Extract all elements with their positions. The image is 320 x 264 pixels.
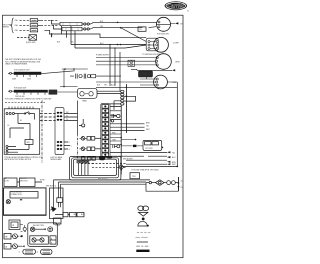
board input terminals <box>6 113 24 115</box>
thermostat screw terminal R <box>80 137 101 141</box>
unit cabinet box <box>4 188 64 219</box>
svg-text:DFT SPK: DFT SPK <box>146 148 154 150</box>
main vertical bus V1 <box>96 84 177 133</box>
low voltage terminal strip LVTB <box>55 108 64 155</box>
Carrier logo <box>165 1 190 12</box>
mid vertical feeder <box>77 101 79 160</box>
svg-text:LEADS ON TRANSFORMER.: LEADS ON TRANSFORMER. <box>5 63 28 66</box>
svg-text:UNITS WITH TWO SPEED MOTOR: UNITS WITH TWO SPEED MOTOR <box>4 159 32 161</box>
arrowed leads to accessories 4 <box>126 163 176 166</box>
svg-text:WHT: WHT <box>146 129 150 131</box>
legend line: field control wiring <box>137 232 150 234</box>
transformer secondary bar <box>8 88 78 99</box>
capacitor symbol mid board <box>110 114 120 122</box>
svg-text:YEL: YEL <box>100 26 103 28</box>
compressor terminal box <box>146 38 158 51</box>
arrowed leads to accessories 2 <box>110 156 176 159</box>
svg-text:COMP: COMP <box>173 43 180 45</box>
indoor fan motor IFM <box>96 75 177 89</box>
svg-text:CAP: CAP <box>141 72 147 76</box>
TB bottom plug blob <box>99 156 105 160</box>
svg-text:FOR 208/230V UNIT: FOR 208/230V UNIT <box>14 70 30 72</box>
wires dropping through cabinet <box>54 189 63 208</box>
svg-text:FOR 230V-1PH: FOR 230V-1PH <box>157 33 170 35</box>
wires TB right to defrost <box>110 122 150 131</box>
board relay contact <box>24 112 34 115</box>
wire from tran to bus <box>97 91 121 93</box>
border frame <box>3 15 184 258</box>
thermostat spade terminals row <box>81 157 95 164</box>
plug connector on OFM feed <box>128 60 135 66</box>
main vertical bus V2 <box>120 105 122 174</box>
svg-text:Y1: Y1 <box>66 115 68 117</box>
brace for field wiring <box>11 18 14 33</box>
crankcase heater plug circles <box>167 181 179 185</box>
svg-text:DOOR: DOOR <box>4 180 10 182</box>
branch wires to fan motors <box>71 44 146 49</box>
legend symbol: splice <box>139 212 148 216</box>
terminal circles after blocks row2 <box>82 28 90 30</box>
svg-text:WHT: WHT <box>172 164 176 166</box>
note: center labels <box>98 178 108 180</box>
terminal circles after blocks row1 <box>82 23 90 25</box>
vertical feeders mid top <box>97 45 120 92</box>
mid capacitor symbol <box>113 145 120 148</box>
legend plug receptacle row <box>30 236 56 245</box>
indoor section label box <box>17 178 46 187</box>
outdoor fan motor OFM <box>156 54 180 70</box>
svg-text:(FOR 3 PH ONLY): (FOR 3 PH ONLY) <box>145 170 159 172</box>
small sensor by TB legend box <box>20 225 26 232</box>
legend line: factory low volt <box>137 241 148 243</box>
note: warning text line <box>5 97 52 109</box>
svg-text:W2: W2 <box>66 112 69 114</box>
arrowed leads to accessories 1 <box>110 151 175 154</box>
thermostat sub-base nested boxes <box>69 156 121 180</box>
disconnect fuse row L1 (dashed field wiring) <box>15 19 58 23</box>
note above raceway <box>46 185 56 187</box>
compressor motor COMP <box>154 37 180 52</box>
vertical feeders from blocks <box>62 26 76 48</box>
svg-text:TRAN: TRAN <box>82 100 87 103</box>
wires from disconnect to terminal blocks <box>51 20 63 29</box>
heavy right bus stub <box>178 177 183 191</box>
svg-text:TO ROOM TSTAT: TO ROOM TSTAT <box>131 169 145 172</box>
svg-text:WIRING: WIRING <box>3 27 10 29</box>
junction loop near bus <box>124 95 136 101</box>
svg-text:YEL: YEL <box>71 42 74 44</box>
svg-text:CONNECTION: CONNECTION <box>10 194 22 196</box>
24v terminal board TB <box>101 104 110 158</box>
outdoor thermostat sensor diamond <box>156 180 167 186</box>
board relay coil <box>25 132 33 150</box>
cabinet inner label plate <box>10 191 38 198</box>
TB mid wires to bus <box>110 132 122 145</box>
sensor on bus <box>119 165 123 171</box>
outdoor thermostat chain: terminal <box>146 181 156 183</box>
board internal wires <box>7 114 35 139</box>
equipment ground lug (dashed) <box>17 35 37 44</box>
accessory relay box mid <box>130 173 140 179</box>
svg-text:SEE NOTE 3: SEE NOTE 3 <box>46 185 56 187</box>
sensor circle mid <box>79 119 85 127</box>
wire L1 to compressor contactor <box>0 0 1 1</box>
dashed wires board to LVTB <box>40 114 56 121</box>
outdoor section label box <box>4 178 17 187</box>
defrost control board <box>143 140 163 150</box>
legend symbol: wire nut <box>138 206 149 211</box>
svg-text:POWER SUPPLY: POWER SUPPLY <box>96 54 110 56</box>
dashed runs to sensor <box>92 164 126 168</box>
disconnect fuse row L2 <box>15 24 58 28</box>
plug ovals bottom row <box>19 249 53 254</box>
connector pin pairs on bus <box>110 90 124 110</box>
note: three phase only <box>145 170 159 172</box>
outdoor fan motor terminals <box>96 56 158 66</box>
thermostat block pins <box>77 160 89 163</box>
note: board caption <box>4 156 43 161</box>
svg-text:TERM BOARD: TERM BOARD <box>50 158 62 161</box>
legend symbol: junction dot <box>142 218 145 221</box>
svg-text:SEE NOTE 2: SEE NOTE 2 <box>98 178 108 180</box>
right vertical feeder <box>176 82 178 166</box>
svg-text:YEL: YEL <box>172 152 175 154</box>
svg-text:PLUG: PLUG <box>56 225 61 227</box>
indoor section legend box <box>28 223 58 247</box>
wires TB to bus <box>110 106 121 119</box>
legend relay symbol row 2 <box>4 243 25 249</box>
note: field power wiring text <box>3 24 13 28</box>
legend line: factory line volt <box>136 250 149 252</box>
thermostat pin drop wires <box>79 163 88 175</box>
long interconnect wires bottom center <box>54 180 151 189</box>
wire top run to right side <box>89 22 156 24</box>
svg-text:21: 21 <box>181 181 183 183</box>
note: room tstat text <box>123 159 145 172</box>
terminal block TB1 <box>60 22 82 25</box>
note: to power supply text <box>96 54 160 56</box>
svg-text:Y2: Y2 <box>66 119 68 121</box>
svg-text:YEL: YEL <box>146 126 149 128</box>
control circuit board box <box>4 109 40 155</box>
wire to defrost board with inline component <box>121 139 143 147</box>
svg-text:IND SECTION: IND SECTION <box>33 225 45 227</box>
legend marked wire row <box>30 227 52 232</box>
note: 230v 1ph text <box>157 33 170 35</box>
cabinet grommet <box>6 199 22 204</box>
board lower terminals <box>6 146 29 154</box>
field splice arrow <box>51 206 57 212</box>
contactor coil and contacts row <box>60 68 121 87</box>
svg-text:EQUIP GND: EQUIP GND <box>26 42 36 44</box>
crankcase heater switch box <box>138 27 146 31</box>
note: unit operation text block <box>5 58 42 65</box>
svg-text:Carrier: Carrier <box>167 4 185 10</box>
arrowed leads to accessories 3 <box>126 160 176 164</box>
run capacitor CAP box <box>139 71 153 77</box>
svg-text:YEL: YEL <box>104 84 107 86</box>
wire L3 run with junction dots <box>44 30 146 37</box>
transformer legend symbol box <box>9 220 20 230</box>
legend symbol: terminal dome <box>138 221 149 226</box>
crankcase heater circle <box>157 17 184 31</box>
legend relay symbol row 1 <box>4 233 23 239</box>
run capacitor CAP arrow wire <box>131 69 175 71</box>
transformer TRAN plug <box>78 88 98 102</box>
svg-text:FOR 460V UNIT: FOR 460V UNIT <box>14 88 26 90</box>
wire labels right of LVTB <box>64 112 78 151</box>
connector label blob <box>107 156 112 159</box>
svg-text:FOR 208V OPERATION CONNECT BLK: FOR 208V OPERATION CONNECT BLK WIRE TO 2… <box>5 97 52 100</box>
svg-text:OFM: OFM <box>175 62 180 64</box>
terminal block TB2 <box>62 27 82 30</box>
note: LVTB caption <box>50 156 63 161</box>
dash-dot accessory boundary <box>41 101 43 163</box>
legend line: field power wiring <box>135 237 147 238</box>
splice connectors row <box>55 212 85 216</box>
legend line: accessory wiring <box>136 245 148 247</box>
wire to right bus with junction <box>121 166 178 168</box>
wire L2 run <box>89 21 156 45</box>
connector label small box <box>54 218 62 227</box>
wire color labels top mid <box>52 33 74 43</box>
transformer primary bar 208/230v taps <box>8 70 75 81</box>
thermostat screw terminal C <box>80 147 101 151</box>
disconnect fuse row L3 <box>15 29 38 33</box>
svg-text:23: 23 <box>181 187 183 189</box>
svg-text:SECTION: SECTION <box>20 180 28 182</box>
heater loop under <box>146 183 179 192</box>
